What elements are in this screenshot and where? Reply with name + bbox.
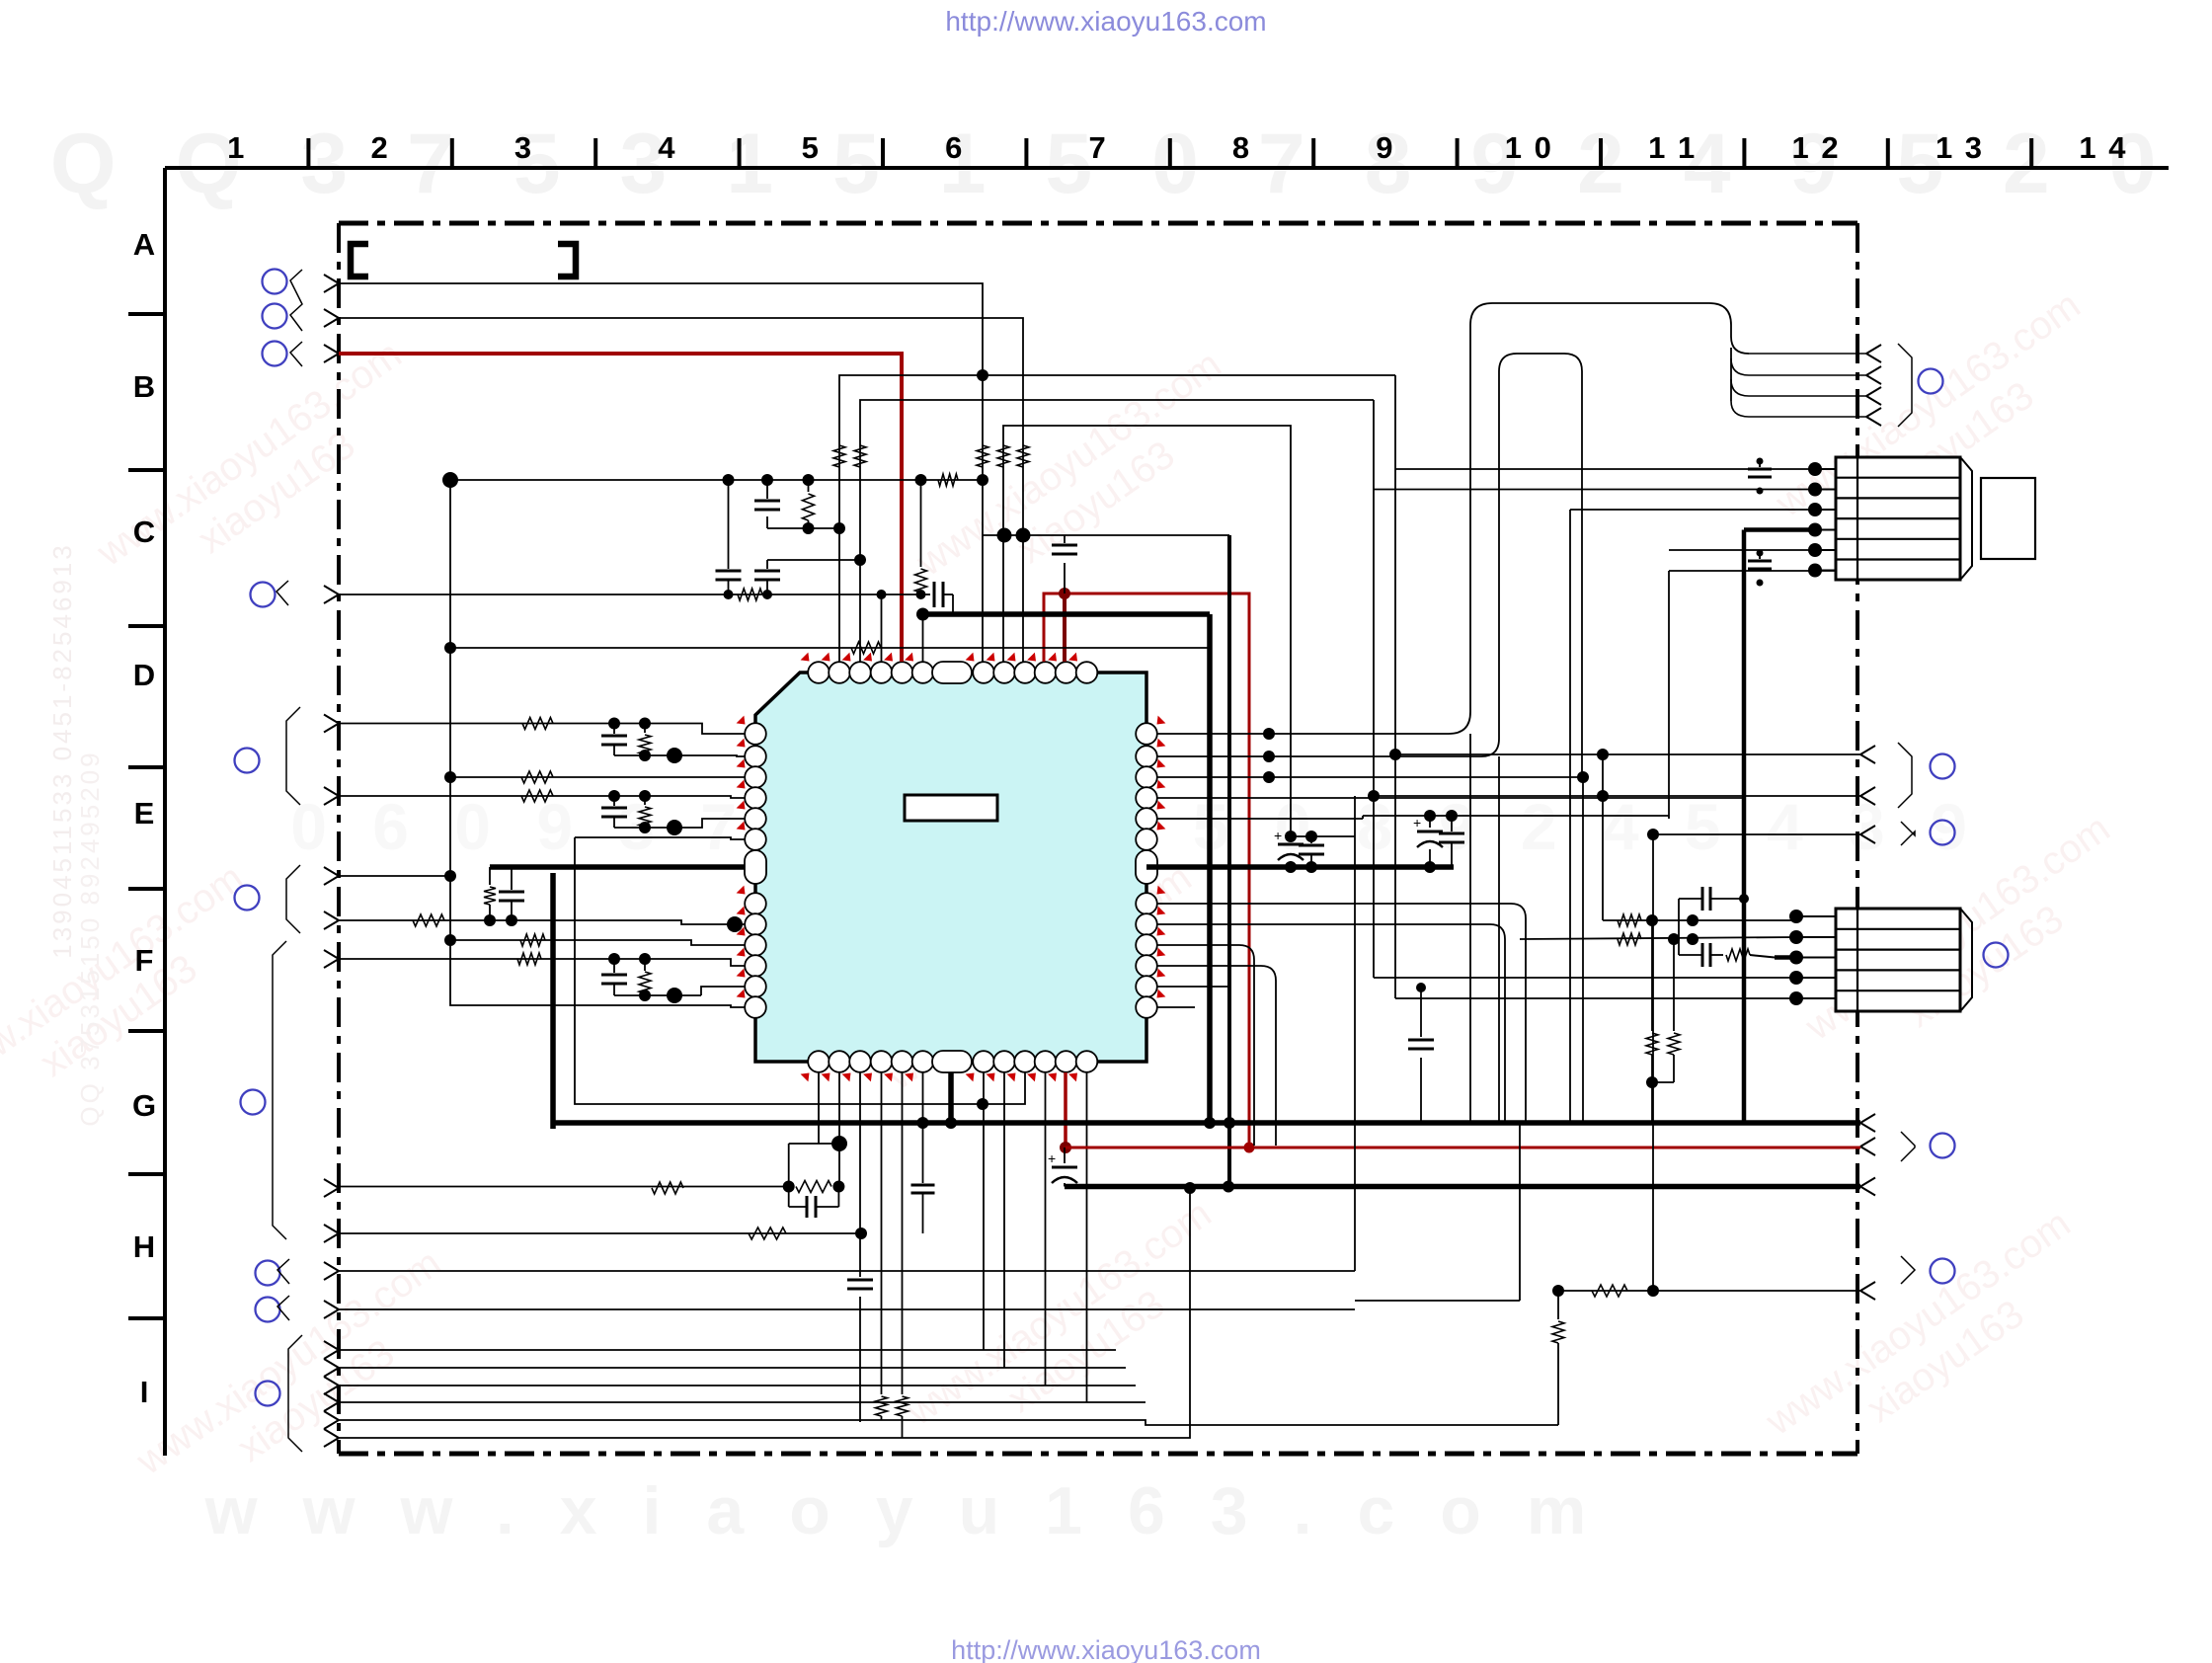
svg-text:E: E — [134, 796, 155, 831]
svg-text:5: 5 — [802, 130, 821, 165]
svg-text:1 3: 1 3 — [1935, 130, 1984, 165]
svg-text:I: I — [140, 1375, 149, 1409]
svg-text:C: C — [133, 515, 155, 549]
svg-text:8: 8 — [1232, 130, 1251, 165]
svg-text:1 0: 1 0 — [1505, 130, 1553, 165]
svg-text:9: 9 — [1376, 130, 1394, 165]
svg-text:D: D — [133, 658, 155, 692]
svg-text:6: 6 — [945, 130, 964, 165]
svg-text:H: H — [133, 1229, 155, 1264]
svg-text:4: 4 — [658, 130, 676, 165]
svg-text:1: 1 — [227, 130, 246, 165]
svg-text:www.xiaoyu163.com: www.xiaoyu163.com — [204, 1473, 1632, 1548]
svg-text:+: + — [1413, 815, 1421, 831]
svg-text:1 4: 1 4 — [2079, 130, 2127, 165]
svg-text:QQ 375315150 892495209: QQ 375315150 892495209 — [75, 750, 105, 1126]
svg-text:http://www.xiaoyu163.com: http://www.xiaoyu163.com — [945, 6, 1266, 37]
svg-text:+: + — [1274, 828, 1282, 843]
svg-text:B: B — [133, 369, 155, 404]
svg-text:7: 7 — [1088, 130, 1107, 165]
svg-text:F: F — [135, 943, 154, 978]
svg-text:1 1: 1 1 — [1648, 130, 1697, 165]
svg-text:A: A — [133, 227, 155, 262]
svg-text:+: + — [1048, 1150, 1056, 1166]
svg-text:3: 3 — [514, 130, 533, 165]
svg-text:G: G — [132, 1088, 156, 1123]
svg-text:http://www.xiaoyu163.com: http://www.xiaoyu163.com — [951, 1635, 1261, 1663]
svg-text:1 2: 1 2 — [1792, 130, 1841, 165]
svg-text:13904511533 0451-82546913: 13904511533 0451-82546913 — [47, 542, 77, 959]
svg-text:2: 2 — [370, 130, 389, 165]
